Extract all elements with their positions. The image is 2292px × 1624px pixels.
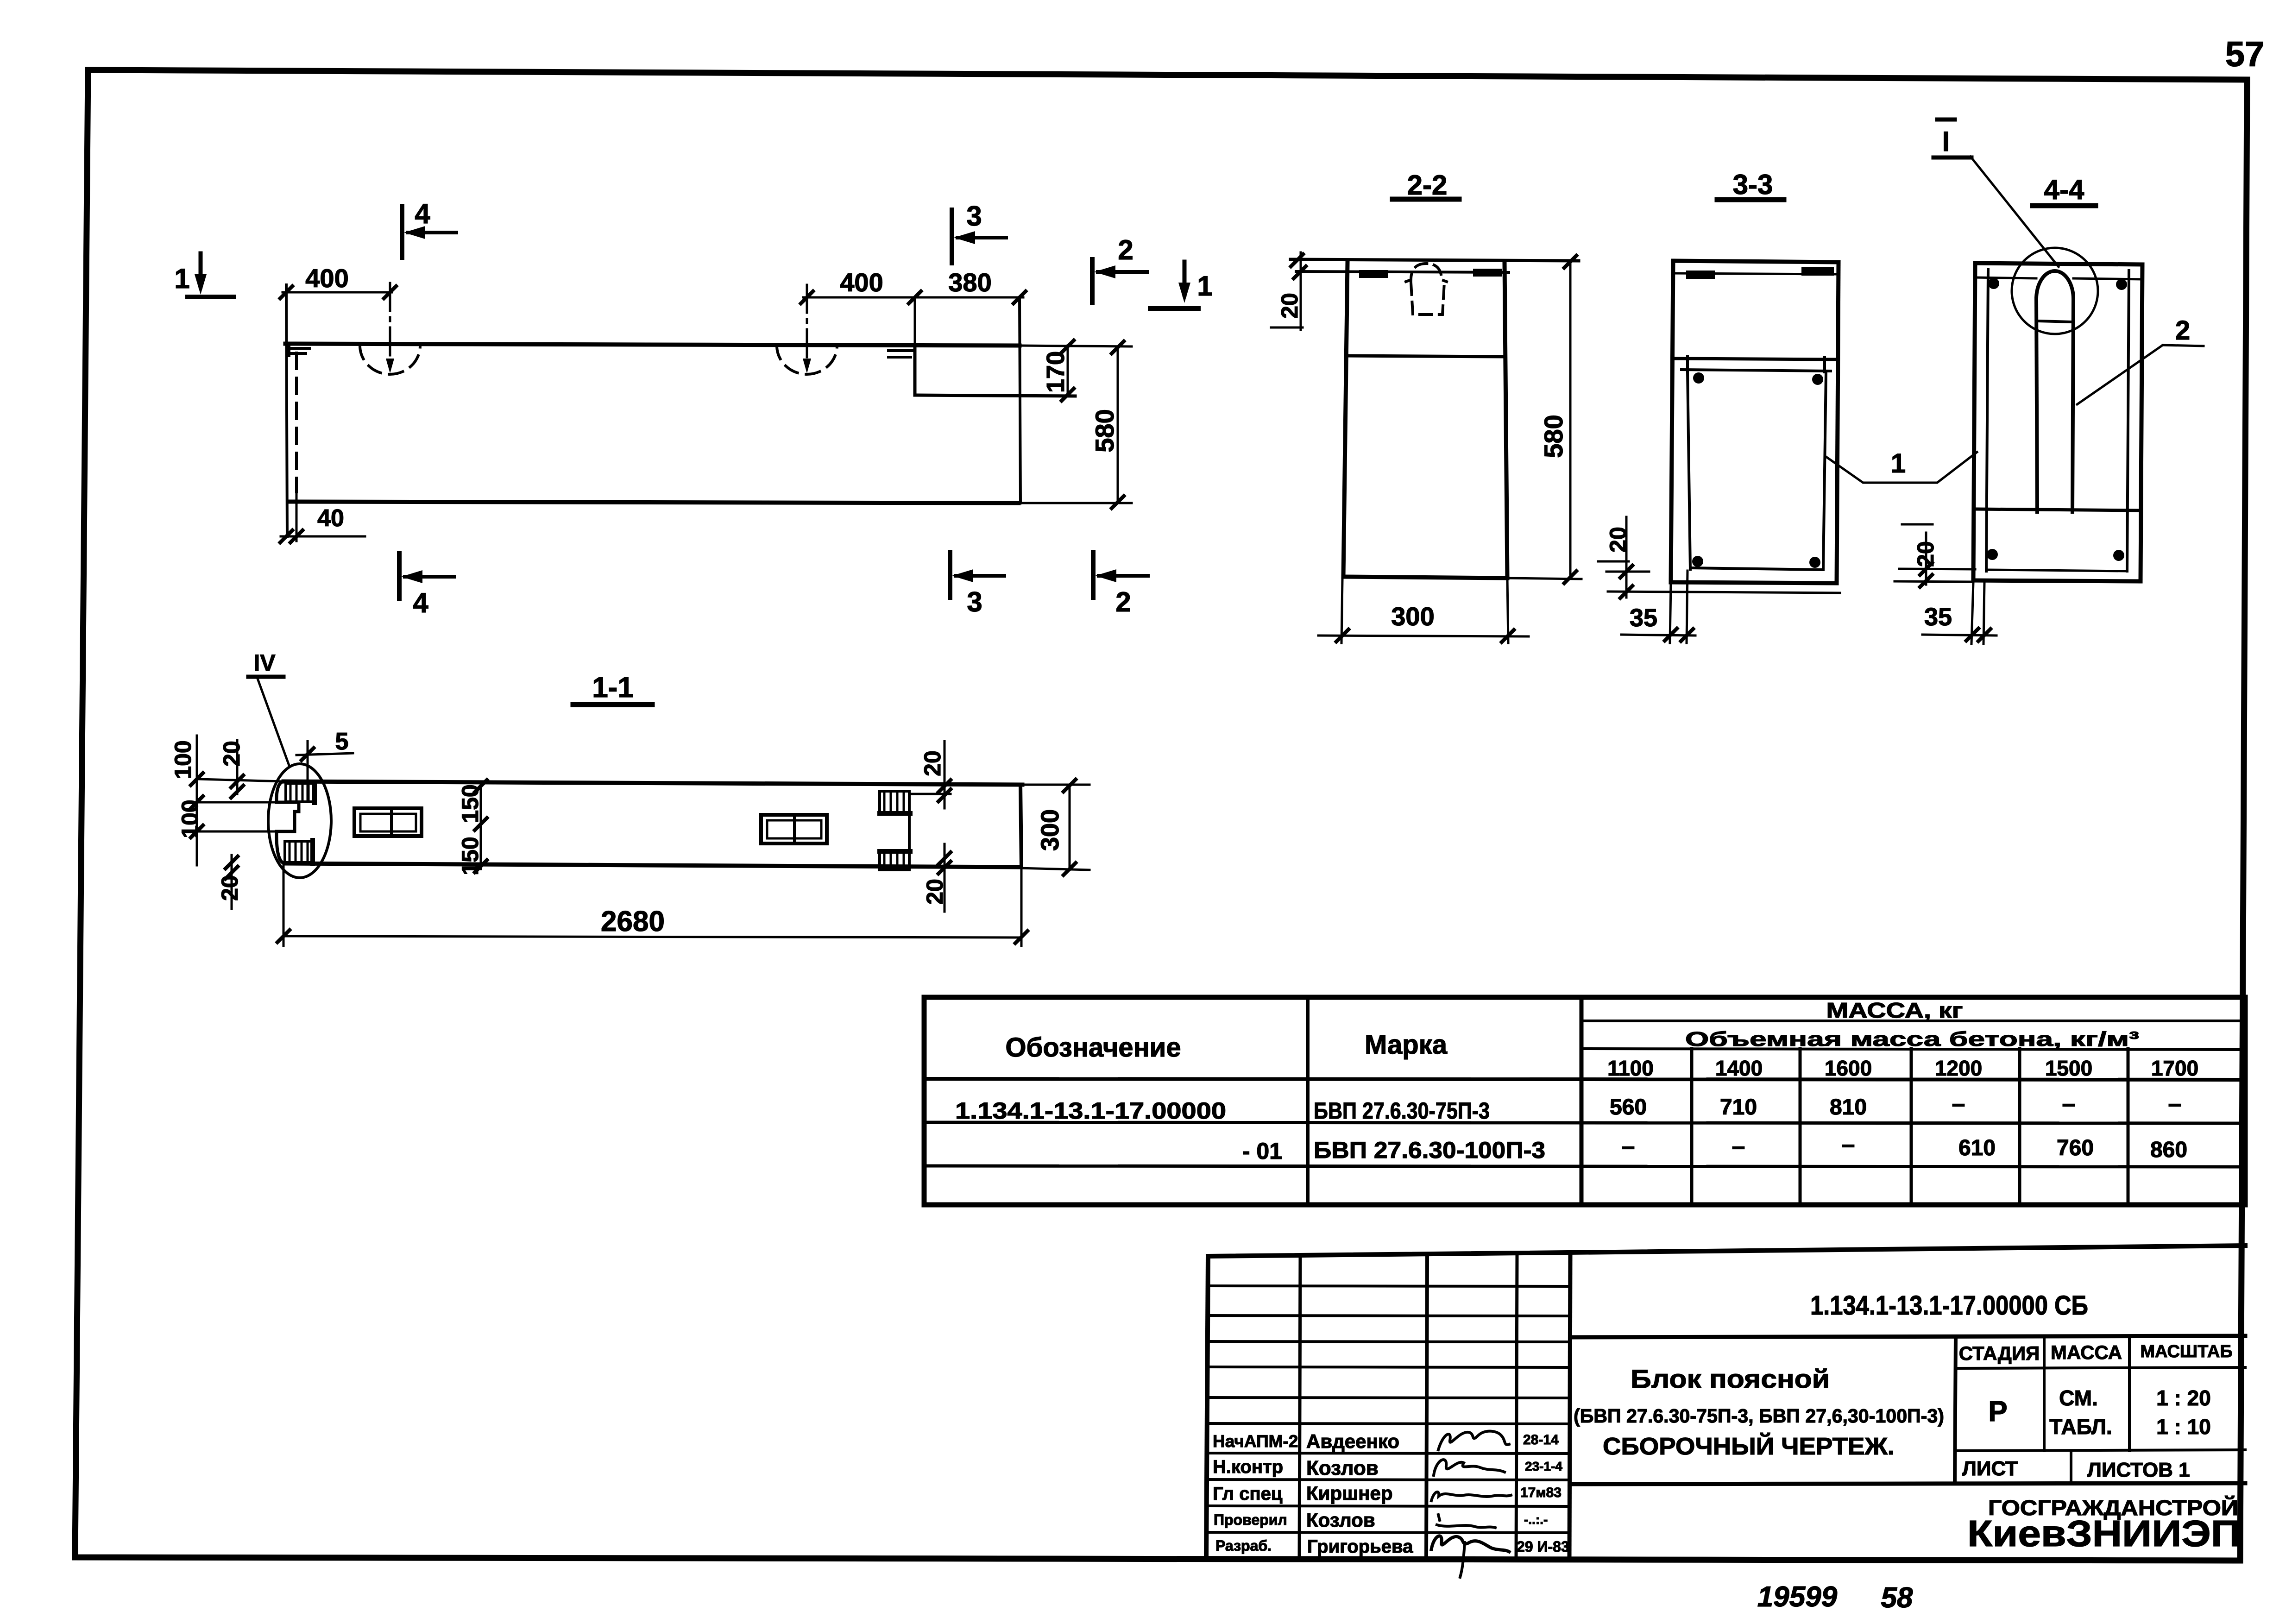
svg-text:58: 58	[1881, 1582, 1913, 1614]
dimension 35 (3-3 bottom)	[1670, 584, 1671, 643]
svg-text:300: 300	[1391, 602, 1434, 631]
section marker 2 top	[1090, 259, 1095, 303]
dimension 20 (2-2 left)	[1300, 252, 1302, 330]
2-2 body left edge	[1343, 262, 1347, 577]
svg-text:–: –	[2168, 1090, 2182, 1117]
elevation embedded plate near step	[888, 349, 915, 352]
svg-text:(БВП 27.6.30-75П-3, БВП 27,6,: (БВП 27.6.30-75П-3, БВП 27,6,30-100П-3)	[1574, 1405, 1944, 1427]
svg-text:Объемная масса бетона, кг/м³: Объемная масса бетона, кг/м³	[1685, 1028, 2139, 1051]
3-3 top slab line 2	[1674, 273, 1837, 274]
dimension 580 (2-2 right)	[1569, 261, 1572, 578]
МАССА/МАСШТАБ divider	[2128, 1337, 2131, 1451]
2-2 dashed lifting loop	[1406, 264, 1447, 282]
elevation beam top edge	[285, 344, 1020, 346]
svg-text:–: –	[2062, 1090, 2076, 1117]
table row line under МАССА	[1581, 1020, 2245, 1022]
svg-text:3: 3	[966, 201, 982, 232]
table sub-column dividers	[1690, 1049, 1694, 1205]
1-1 beam right end edge	[1020, 785, 1021, 867]
detail oval around left end of 1-1	[268, 764, 331, 878]
svg-text:29 И-83: 29 И-83	[1517, 1538, 1569, 1555]
title area bottom line	[1570, 1483, 2245, 1484]
elevation step vertical edge	[913, 347, 917, 395]
svg-text:Разраб.: Разраб.	[1215, 1537, 1272, 1554]
svg-text:Григорьева: Григорьева	[1307, 1536, 1413, 1557]
1-1 embedded plate right top (hatched)	[880, 791, 909, 814]
dimension 380 (elevation)	[915, 296, 1023, 299]
svg-text:Козлов: Козлов	[1306, 1457, 1379, 1479]
svg-text:–: –	[1952, 1090, 1965, 1117]
3-3 body outline	[1673, 261, 1839, 262]
svg-text:1 : 20: 1 : 20	[2156, 1386, 2211, 1410]
table row 2 bottom line	[924, 1166, 2245, 1167]
dashed lifting loop arc left	[360, 346, 420, 374]
4-4 detail circle	[2012, 248, 2098, 334]
3-3 embedded plate left	[1686, 271, 1715, 279]
3-3 embedded plate right	[1801, 267, 1834, 276]
svg-text:20: 20	[1913, 541, 1939, 567]
svg-text:3-3: 3-3	[1733, 169, 1773, 200]
dimension 2680 (1-1 bottom)	[283, 865, 285, 946]
section marker 1 (top-left, arrow down)	[199, 253, 203, 286]
leader line IV	[258, 679, 290, 767]
svg-text:100: 100	[177, 799, 203, 838]
svg-text:300: 300	[1036, 809, 1064, 851]
dimension 40 (elevation bottom-left)	[296, 492, 298, 541]
svg-text:IV: IV	[253, 650, 276, 676]
2-2 body right edge	[1505, 262, 1507, 578]
dimension 300 (1-1 right)	[1022, 784, 1089, 786]
loop centre line left	[389, 283, 391, 366]
svg-text:Гл спец: Гл спец	[1213, 1484, 1283, 1504]
loop centre line right	[806, 285, 808, 366]
svg-text:20: 20	[1605, 527, 1631, 553]
svg-text:2: 2	[2175, 315, 2190, 346]
leader I to detail circle	[1971, 157, 2059, 267]
1-1 left dimension chain 100/100	[196, 736, 198, 865]
svg-text:Обозначение: Обозначение	[1005, 1032, 1181, 1063]
elevation beam right edge + extension	[1020, 297, 1020, 503]
table vertical divider col1/col2	[1306, 997, 1310, 1205]
dimension 170 (elevation right)	[1020, 346, 1132, 346]
svg-text:40: 40	[317, 505, 344, 532]
dashed lifting loop arc right	[777, 346, 837, 374]
svg-text:2: 2	[1115, 586, 1131, 617]
title block narrow row lines	[1208, 1286, 1570, 1286]
svg-text:400: 400	[840, 268, 883, 297]
svg-text:1: 1	[174, 263, 189, 294]
1-1 embedded plate left bottom (hatched)	[285, 841, 313, 862]
svg-text:МАССА: МАССА	[2051, 1341, 2122, 1363]
svg-text:Киршнер: Киршнер	[1306, 1482, 1393, 1504]
svg-text:2680: 2680	[601, 906, 665, 938]
svg-text:1: 1	[1197, 271, 1212, 302]
dimension 150/150 (1-1 mid)	[480, 783, 482, 869]
svg-text:560: 560	[1610, 1095, 1647, 1120]
svg-text:170: 170	[1042, 351, 1070, 393]
4-4 cage horizontal bar	[1977, 509, 2137, 510]
4-4 cage verticals	[1986, 270, 1988, 571]
section marker 4 top	[400, 206, 404, 258]
svg-text:1500: 1500	[2045, 1056, 2092, 1080]
svg-text:-..:.-: -..:.-	[1524, 1512, 1548, 1527]
svg-text:5: 5	[335, 728, 349, 755]
svg-text:Проверил: Проверил	[1214, 1511, 1287, 1528]
svg-text:860: 860	[2150, 1138, 2187, 1162]
1-1 notch line between right plates	[908, 814, 911, 851]
ЛИСТ/ЛИСТОВ divider	[2070, 1451, 2072, 1484]
vertical: title / stamp columns	[1955, 1337, 1956, 1484]
dimension 20 (4-4 bottom-left)	[1925, 533, 1927, 585]
svg-text:4-4: 4-4	[2044, 174, 2084, 205]
svg-text:610: 610	[1958, 1136, 1996, 1160]
svg-text:Н.контр: Н.контр	[1213, 1457, 1283, 1477]
svg-text:1 : 10: 1 : 10	[2156, 1415, 2211, 1439]
svg-text:100: 100	[170, 740, 196, 779]
section marker 4 bottom	[397, 554, 402, 598]
3-3 cage corner dots	[1693, 372, 1704, 384]
svg-text:19599: 19599	[1757, 1581, 1838, 1613]
svg-text:–: –	[1622, 1133, 1635, 1160]
svg-text:400: 400	[305, 264, 348, 293]
svg-text:760: 760	[2057, 1136, 2094, 1160]
svg-text:Блок поясной: Блок поясной	[1631, 1364, 1830, 1393]
4-4 cage corner dots	[1988, 278, 1999, 289]
svg-text:20: 20	[219, 741, 245, 767]
3-3 cage bottom bar	[1690, 568, 1823, 570]
svg-text:МАССА, кг: МАССА, кг	[1826, 998, 1963, 1022]
svg-text:Авдеенко: Авдеенко	[1306, 1430, 1399, 1452]
signatures (squiggles)	[1438, 1431, 1509, 1450]
2-2 embedded plate right	[1473, 269, 1502, 277]
table header bottom line	[924, 1079, 2245, 1080]
СТАДИЯ/МАССА divider	[2043, 1337, 2046, 1451]
3-3 cage verticals	[1688, 371, 1690, 569]
1-1 beam top edge	[283, 781, 1022, 785]
4-4 cage bottom bar	[1986, 570, 2127, 571]
elevation hidden dashed edge at left end	[295, 353, 298, 492]
svg-text:СМ.: СМ.	[2059, 1386, 2098, 1410]
1-1 loop anchor plate right	[761, 815, 827, 843]
1-1 left end face with notch	[277, 781, 299, 863]
svg-text:СБОРОЧНЫЙ ЧЕРТЕЖ.: СБОРОЧНЫЙ ЧЕРТЕЖ.	[1603, 1433, 1895, 1460]
title block signature row lines	[1207, 1453, 1570, 1454]
svg-text:580: 580	[1090, 409, 1119, 452]
svg-text:1.134.1-13.1-17.00000: 1.134.1-13.1-17.00000	[955, 1098, 1226, 1124]
svg-text:57: 57	[2225, 35, 2265, 74]
svg-text:20: 20	[1277, 293, 1303, 319]
elevation beam left edge + extension	[286, 285, 287, 536]
2-2 embedded plate left	[1359, 270, 1388, 278]
svg-text:28-14: 28-14	[1523, 1432, 1559, 1448]
2-2 top slab line 2	[1296, 271, 1509, 272]
svg-text:ЛИСТ: ЛИСТ	[1962, 1457, 2018, 1480]
svg-text:- 01: - 01	[1242, 1138, 1282, 1164]
2-2 recess boundary line	[1347, 356, 1505, 357]
svg-text:20: 20	[919, 750, 945, 776]
svg-text:Р: Р	[1988, 1396, 2007, 1428]
dimension 300 (2-2 bottom)	[1341, 579, 1342, 643]
elevation step horizontal edge (170 recess)	[915, 395, 1075, 396]
svg-text:МАСШТАБ: МАСШТАБ	[2140, 1342, 2232, 1361]
svg-text:35: 35	[1630, 604, 1657, 632]
svg-text:20: 20	[217, 875, 243, 901]
svg-text:17м83: 17м83	[1520, 1485, 1562, 1500]
dimension 20 (3-3 bottom-left)	[1625, 517, 1628, 598]
svg-text:4: 4	[415, 198, 430, 229]
dimension 580 (elevation right)	[1019, 502, 1132, 504]
4-4 top slab line 2	[1975, 277, 2036, 278]
svg-text:1-1: 1-1	[592, 672, 634, 704]
doc number cell bottom line	[1570, 1336, 2245, 1337]
svg-text:1100: 1100	[1607, 1056, 1654, 1080]
leader line 1 (rebar cage)	[1826, 452, 1977, 483]
section marker 2 bottom	[1091, 552, 1096, 598]
svg-text:23-1-4: 23-1-4	[1525, 1459, 1562, 1473]
svg-text:580: 580	[1539, 415, 1568, 458]
table vertical divider col2/mass	[1580, 997, 1584, 1205]
svg-text:–: –	[1842, 1131, 1855, 1158]
svg-text:ЛИСТОВ 1: ЛИСТОВ 1	[2087, 1459, 2190, 1481]
svg-text:–: –	[1732, 1133, 1745, 1160]
svg-text:НачАПМ-2: НачАПМ-2	[1213, 1432, 1298, 1451]
svg-text:1: 1	[1891, 448, 1906, 478]
title block left edge	[1206, 1256, 1208, 1559]
1-1 beam bottom edge	[284, 863, 1019, 867]
svg-text:2-2: 2-2	[1407, 170, 1448, 201]
1-1 embedded plate left top (hatched)	[286, 783, 315, 802]
svg-text:1400: 1400	[1715, 1056, 1763, 1080]
1-1 loop anchor plate left	[354, 808, 422, 836]
svg-text:СТАДИЯ: СТАДИЯ	[1959, 1342, 2040, 1364]
svg-text:1600: 1600	[1825, 1056, 1872, 1080]
1-1 embedded plate right bottom (hatched)	[880, 851, 909, 870]
2-2 body bottom edge	[1343, 577, 1507, 578]
3-3 bottom extension line	[1608, 592, 1840, 593]
title block outer top edge	[1208, 1246, 2245, 1256]
ЛИСТ row top line	[1956, 1450, 2245, 1451]
4-4 body outline	[1975, 263, 2142, 264]
table row line under Объемная масса	[1581, 1049, 2245, 1050]
svg-text:БВП 27.6.30-100П-3: БВП 27.6.30-100П-3	[1314, 1137, 1545, 1163]
title block verticals (signature columns)	[1299, 1255, 1300, 1559]
svg-text:4: 4	[413, 587, 428, 618]
3-3 cage top bar	[1681, 370, 1831, 371]
dimension 400 left (elevation)	[283, 291, 392, 294]
mass table outer border	[924, 997, 2245, 1205]
dimension 35 (4-4 bottom)	[1971, 582, 1973, 644]
svg-text:3: 3	[967, 586, 982, 617]
svg-text:Козлов: Козлов	[1306, 1509, 1375, 1531]
section marker 1 right (arrow down)	[1183, 262, 1187, 295]
section marker 3 top	[950, 210, 954, 263]
2-2 top slab line 1	[1291, 259, 1579, 261]
4-4 lifting loop channel	[2036, 299, 2037, 512]
table row 1 bottom line	[924, 1122, 2245, 1123]
svg-text:Марка: Марка	[1365, 1030, 1448, 1060]
svg-text:810: 810	[1830, 1095, 1867, 1120]
dimension 400 right (elevation)	[803, 296, 919, 299]
svg-text:150: 150	[457, 837, 483, 875]
elevation beam bottom edge	[290, 502, 1019, 503]
СТАДИЯ header row bottom	[1956, 1367, 2245, 1368]
3-3 recess boundary line	[1672, 359, 1837, 359]
elevation end plate detail top-left	[288, 347, 309, 350]
svg-text:2: 2	[1118, 234, 1133, 265]
svg-text:1700: 1700	[2151, 1056, 2198, 1080]
svg-text:ТАБЛ.: ТАБЛ.	[2049, 1415, 2112, 1439]
svg-text:1.134.1-13.1-17.00000 СБ: 1.134.1-13.1-17.00000 СБ	[1810, 1290, 2088, 1321]
svg-text:1200: 1200	[1935, 1056, 1982, 1080]
svg-text:35: 35	[1924, 603, 1952, 631]
svg-text:БВП 27.6.30-75П-3: БВП 27.6.30-75П-3	[1314, 1098, 1490, 1124]
svg-text:150: 150	[457, 784, 483, 823]
svg-text:I: I	[1942, 126, 1950, 157]
section marker 3 bottom	[948, 552, 952, 598]
svg-text:380: 380	[948, 268, 991, 297]
svg-text:710: 710	[1720, 1095, 1757, 1120]
svg-text:КиевЗНИИЭП: КиевЗНИИЭП	[1967, 1513, 2241, 1554]
